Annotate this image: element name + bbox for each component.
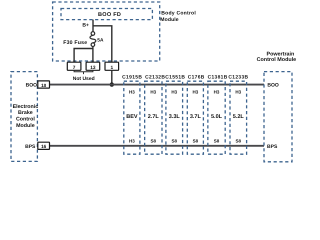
engine variant box 3.3L	[166, 81, 183, 154]
svg-text:1: 1	[110, 65, 113, 71]
svg-text:3.3L: 3.3L	[169, 114, 181, 120]
wire: branch left to pin 7	[74, 49, 93, 63]
wire: branch right to pin 1	[93, 26, 112, 62]
module box: Powertrain Control Module	[264, 72, 292, 162]
svg-text:Brake: Brake	[18, 110, 33, 116]
svg-text:Control: Control	[16, 117, 35, 123]
wire: fuse down to pin 13	[92, 47, 94, 63]
svg-text:C1915B: C1915B	[122, 75, 142, 81]
not used bracket	[74, 70, 93, 74]
svg-text:BEV: BEV	[126, 114, 138, 120]
svg-text:18: 18	[41, 83, 47, 88]
svg-text:Body Control: Body Control	[161, 11, 196, 17]
engine variant box 2.7L	[145, 81, 162, 154]
svg-text:S8: S8	[214, 139, 220, 144]
wire: BPS bus (bottom horizontal)	[49, 145, 264, 147]
svg-text:BPS: BPS	[25, 144, 36, 150]
svg-text:C2132B: C2132B	[145, 75, 165, 81]
pin 18	[38, 81, 50, 88]
svg-text:H3: H3	[150, 89, 156, 94]
pin 16	[38, 142, 50, 149]
svg-text:C1233B: C1233B	[228, 75, 248, 81]
svg-text:H3: H3	[129, 89, 135, 94]
svg-text:H3: H3	[129, 139, 135, 144]
svg-text:16: 16	[41, 144, 47, 149]
svg-text:5.0L: 5.0L	[211, 114, 223, 120]
wire: pin 1 down to bus junction	[111, 70, 113, 84]
svg-text:S8: S8	[171, 139, 177, 144]
svg-text:3.7L: 3.7L	[190, 114, 202, 120]
engine variant box BEV	[124, 81, 140, 154]
svg-text:B+: B+	[82, 23, 89, 29]
module box: Electronic Brake Control Module	[11, 72, 37, 162]
svg-text:5.2L: 5.2L	[233, 114, 245, 120]
svg-text:S8: S8	[151, 139, 157, 144]
svg-text:Module: Module	[160, 17, 178, 23]
engine variant box 5.0L	[208, 81, 225, 154]
wire: BOO bus (top horizontal)	[50, 84, 265, 86]
pin 1	[105, 62, 119, 71]
pin 13	[86, 62, 100, 71]
svg-text:C1551B: C1551B	[165, 75, 185, 81]
svg-text:H3: H3	[171, 89, 177, 94]
svg-text:BPS: BPS	[267, 144, 278, 150]
svg-text:H3: H3	[235, 89, 241, 94]
svg-text:S8: S8	[193, 139, 199, 144]
svg-text:S8: S8	[236, 139, 242, 144]
svg-text:13: 13	[90, 65, 96, 71]
pin 7	[67, 62, 81, 71]
svg-text:Electronic: Electronic	[13, 104, 39, 110]
fuse F30 5A	[90, 32, 96, 47]
svg-text:BOO FD: BOO FD	[98, 12, 121, 18]
module box: BOO FD fuse block	[61, 9, 152, 20]
svg-text:H3: H3	[214, 89, 220, 94]
svg-text:5A: 5A	[97, 38, 104, 44]
label: Electronic Brake Control Module	[13, 104, 39, 129]
svg-text:C176B: C176B	[188, 75, 205, 81]
svg-text:C1381B: C1381B	[208, 75, 228, 81]
svg-text:BOO: BOO	[26, 83, 38, 89]
svg-text:BOO: BOO	[267, 83, 279, 89]
svg-text:7: 7	[73, 65, 76, 71]
module box: Body Control Module	[53, 2, 160, 61]
svg-text:H3: H3	[192, 89, 198, 94]
junction node	[110, 82, 114, 86]
svg-text:F30 Fuse: F30 Fuse	[63, 40, 87, 46]
engine variant box 5.2L	[230, 81, 247, 154]
svg-text:Module: Module	[16, 123, 35, 129]
engine variant box 3.7L	[187, 81, 203, 154]
wire: B+ feed down to fuse	[92, 20, 94, 32]
svg-text:Control Module: Control Module	[257, 57, 297, 63]
svg-text:Not Used: Not Used	[73, 76, 95, 82]
svg-text:2.7L: 2.7L	[148, 114, 160, 120]
